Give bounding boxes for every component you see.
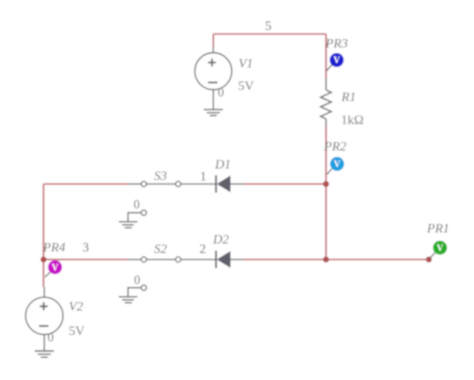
wire V2 top stub [43, 260, 45, 288]
wire net5 V1 top stub [212, 34, 214, 47]
wire S3 row left [44, 183, 129, 185]
wire node2 to PR1 [326, 259, 429, 261]
svg-text:3: 3 [83, 240, 90, 255]
switch S2 throw terminal [128, 285, 146, 297]
diode D2 [216, 251, 244, 268]
ground (V2) [35, 351, 54, 357]
svg-text:V: V [333, 55, 340, 65]
wire D2 to right vertical [244, 259, 327, 261]
wire net3 row left [44, 259, 129, 261]
svg-text:V: V [334, 159, 341, 169]
probe PR3 [327, 53, 344, 71]
svg-text:0: 0 [134, 273, 140, 287]
ground (V1) [204, 110, 223, 116]
svg-text:R1: R1 [341, 89, 356, 104]
svg-text:D1: D1 [214, 157, 231, 172]
voltage source V2 [26, 287, 63, 351]
svg-text:S2: S2 [154, 241, 168, 256]
junction node1 [323, 181, 329, 187]
switch S3 throw terminal [128, 210, 146, 222]
svg-text:V1: V1 [239, 56, 253, 71]
svg-text:PR3: PR3 [325, 36, 349, 51]
switch S2 [128, 257, 216, 262]
switch S3 [128, 181, 216, 186]
svg-text:PR4: PR4 [42, 240, 66, 255]
svg-text:V2: V2 [69, 298, 84, 313]
svg-text:PR1: PR1 [426, 221, 449, 236]
probe PR2 [327, 157, 344, 174]
svg-text:D2: D2 [212, 232, 229, 247]
svg-text:5V: 5V [69, 323, 86, 338]
ground (S2) [119, 297, 138, 303]
svg-text:1: 1 [200, 169, 207, 184]
wire D1 to right vertical [244, 183, 327, 185]
probe PR4 [45, 260, 62, 277]
junction node3 (PR4) [41, 257, 47, 263]
svg-text:5: 5 [265, 18, 272, 33]
wire net5 top horizontal [213, 33, 326, 35]
svg-text:2: 2 [200, 241, 207, 256]
svg-text:S3: S3 [154, 168, 168, 183]
voltage source V1 [195, 47, 232, 110]
ground (S3) [119, 222, 138, 228]
svg-text:0: 0 [218, 86, 224, 100]
wire left vertical [43, 184, 45, 260]
svg-text:V: V [52, 262, 59, 272]
svg-text:V: V [437, 243, 444, 253]
diode D1 [216, 175, 244, 192]
wire R1 bottom to node 1 [325, 127, 327, 184]
svg-text:PR2: PR2 [323, 139, 347, 154]
probe PR1 [430, 241, 448, 259]
svg-text:1kΩ: 1kΩ [341, 112, 364, 127]
wire right vertical node1 to node2 [325, 184, 327, 260]
wire endpoint (PR1) [426, 257, 432, 263]
junction node2 [323, 257, 329, 263]
resistor R1 [321, 78, 332, 127]
svg-text:0: 0 [134, 198, 140, 212]
svg-text:0: 0 [48, 331, 54, 345]
svg-text:5V: 5V [238, 78, 255, 93]
wire net5 right vertical to R1 [325, 34, 327, 78]
